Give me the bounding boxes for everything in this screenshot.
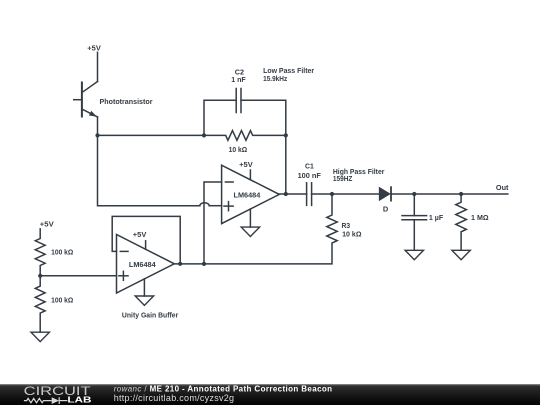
svg-text:http://circuitlab.com/cyzsv2g: http://circuitlab.com/cyzsv2g bbox=[114, 393, 235, 403]
svg-text:LAB: LAB bbox=[67, 394, 91, 404]
